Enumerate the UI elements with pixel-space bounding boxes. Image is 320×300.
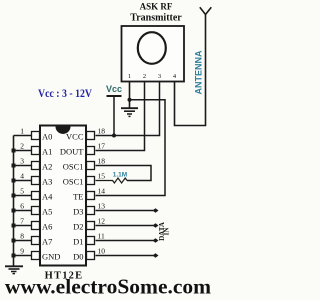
svg-text:1.1M: 1.1M [113, 172, 127, 179]
svg-text:GND: GND [42, 252, 60, 262]
svg-text:15: 15 [98, 172, 106, 181]
svg-text:www.electroSome.com: www.electroSome.com [5, 275, 211, 299]
svg-text:13: 13 [98, 202, 106, 211]
wire: transmitter pin4 to antenna [175, 15, 206, 126]
svg-text:A4: A4 [42, 192, 53, 202]
wire: D0 pin10 data line [96, 255, 154, 257]
svg-text:Vcc: Vcc [106, 84, 122, 94]
ground symbol at bus [5, 266, 23, 273]
svg-text:1: 1 [20, 127, 24, 136]
svg-text:A2: A2 [42, 162, 52, 172]
svg-text:A3: A3 [42, 177, 52, 187]
svg-text:ASK RF: ASK RF [140, 2, 173, 12]
ground symbol at transmitter pin1 [121, 108, 138, 116]
svg-text:TE: TE [73, 192, 83, 202]
node diamond D2 [153, 223, 159, 228]
resistor R1 zigzag [96, 178, 128, 183]
right IC pin pads [87, 132, 95, 260]
svg-text:17: 17 [98, 142, 106, 151]
IC right pin labels [60, 132, 84, 262]
svg-text:OSC1: OSC1 [63, 177, 84, 187]
svg-text:DOUT: DOUT [60, 147, 84, 157]
svg-text:3: 3 [158, 73, 161, 80]
IC left pin labels [42, 132, 60, 262]
DATA IN label [158, 222, 170, 241]
svg-text:A0: A0 [42, 132, 52, 142]
svg-text:A1: A1 [42, 147, 52, 157]
IC U1 HT12E body [40, 126, 86, 266]
svg-text:12: 12 [98, 217, 106, 226]
wire: VCC pin18 to transmitter pin3 [96, 82, 160, 136]
antenna symbol arms [200, 7, 212, 14]
svg-text:D3: D3 [73, 207, 83, 217]
node diamond D1 [153, 238, 159, 243]
wire: DOUT pin17 to transmitter pin2 [96, 82, 145, 151]
svg-text:6: 6 [20, 202, 24, 211]
node diamond D3 [153, 208, 159, 213]
left IC pin pads [32, 132, 40, 260]
wire: ground net from pin1 to TE riser [96, 100, 166, 196]
svg-text:4: 4 [20, 172, 24, 181]
IC notch [56, 127, 71, 135]
left bus wire [13, 136, 15, 266]
svg-text:7: 7 [20, 217, 24, 226]
svg-text:2: 2 [20, 142, 24, 151]
junction node on pin1/TE ground net [128, 98, 132, 102]
junction node on VCC net [112, 134, 116, 138]
svg-text:Transmitter: Transmitter [130, 13, 182, 24]
svg-text:D1: D1 [73, 237, 83, 247]
svg-text:A5: A5 [42, 207, 52, 217]
svg-text:A7: A7 [42, 237, 52, 247]
svg-text:ANTENNA: ANTENNA [194, 50, 204, 94]
wire: OSC1 pin16 loop to OSC2 pin15 [96, 166, 152, 181]
svg-text:OSC1: OSC1 [63, 162, 84, 172]
transmitter box [122, 26, 185, 82]
svg-text:18: 18 [98, 157, 106, 166]
wire: D2 pin12 data line [96, 225, 154, 227]
svg-text:VCC: VCC [66, 132, 84, 142]
wire: Vcc bar down to VCC pin18 net [113, 96, 115, 136]
svg-text:IN: IN [162, 228, 170, 236]
svg-text:18: 18 [98, 127, 106, 136]
wire: transmitter pin1 (GND) riser [129, 82, 131, 108]
left pin wires 1-9 [14, 136, 32, 256]
svg-text:11: 11 [98, 232, 105, 241]
svg-text:14: 14 [98, 187, 106, 196]
svg-text:9: 9 [20, 247, 24, 256]
svg-text:3: 3 [20, 157, 24, 166]
svg-text:Vcc : 3 - 12V: Vcc : 3 - 12V [38, 88, 93, 100]
svg-text:1: 1 [128, 73, 131, 80]
svg-text:8: 8 [20, 232, 24, 241]
svg-text:D0: D0 [73, 252, 83, 262]
svg-text:A6: A6 [42, 222, 52, 232]
node diamond D0 [153, 253, 159, 258]
svg-text:D2: D2 [73, 222, 83, 232]
right pin numbers [98, 127, 106, 256]
bus junction squares pins 2-9 [12, 149, 16, 258]
svg-text:5: 5 [20, 187, 24, 196]
Vcc power bar [107, 95, 122, 97]
svg-text:10: 10 [98, 247, 106, 256]
wire: D1 pin11 data line [96, 240, 154, 242]
transmitter crystal circle [138, 32, 166, 64]
svg-text:2: 2 [143, 73, 146, 80]
wire: D3 pin13 data line [96, 210, 154, 212]
left pin numbers [20, 127, 24, 256]
